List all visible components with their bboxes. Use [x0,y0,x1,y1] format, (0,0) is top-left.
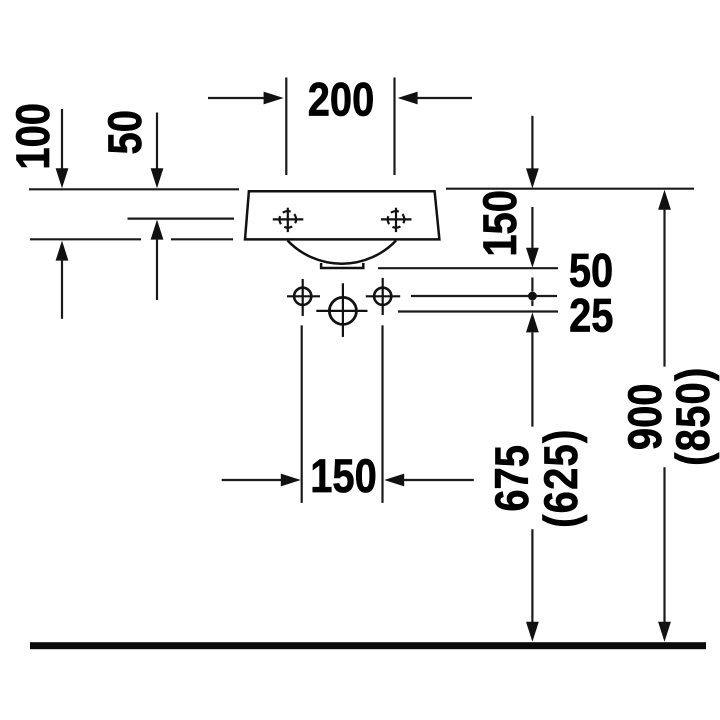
svg-text:150: 150 [474,190,527,257]
svg-text:900: 900 [619,384,672,451]
svg-text:50: 50 [99,110,152,154]
svg-text:675: 675 [486,445,539,512]
svg-text:(850): (850) [667,366,720,465]
svg-text:150: 150 [310,450,377,503]
svg-text:(625): (625) [535,428,588,527]
svg-text:100: 100 [7,103,60,170]
svg-text:200: 200 [308,73,375,126]
svg-text:25: 25 [569,289,613,342]
